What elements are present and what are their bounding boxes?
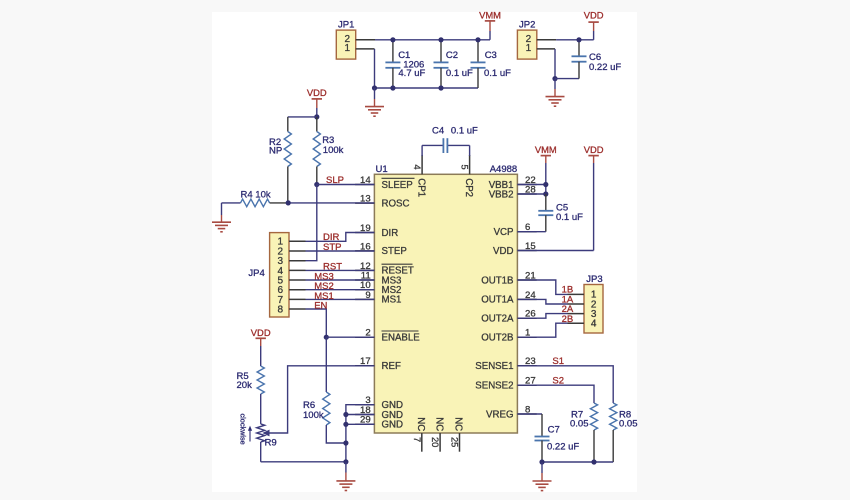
- node R6 gnd: [343, 440, 348, 445]
- svg-text:VMM: VMM: [479, 10, 501, 21]
- svg-text:VCP: VCP: [494, 227, 514, 238]
- net label 1A: [562, 294, 574, 305]
- svg-text:0.05: 0.05: [570, 418, 589, 429]
- resistor R2 NP: [269, 117, 291, 203]
- node JP1 gnd junction: [372, 85, 377, 90]
- svg-text:0.1 uF: 0.1 uF: [484, 68, 511, 79]
- node C3 top: [475, 37, 480, 42]
- net label MS1: [314, 291, 334, 302]
- wire MS2: [306, 289, 375, 291]
- svg-text:0.1 uF: 0.1 uF: [446, 68, 473, 79]
- capacitor C6: [572, 40, 622, 79]
- svg-text:4: 4: [412, 165, 422, 170]
- potentiometer R9 wiper arrow: [262, 430, 269, 437]
- svg-text:NC: NC: [415, 417, 426, 431]
- node C1 bottom: [390, 85, 395, 90]
- label clockwise: [239, 414, 253, 445]
- wire R9 bottom rail: [261, 461, 346, 463]
- capacitor C1: [385, 40, 425, 88]
- svg-text:VDD: VDD: [307, 87, 327, 98]
- svg-text:7: 7: [412, 437, 422, 442]
- svg-text:SLEEP: SLEEP: [382, 180, 413, 191]
- wire GND pin3 to bus: [346, 405, 375, 462]
- power VDD (R5): [251, 327, 271, 366]
- svg-text:JP1: JP1: [338, 20, 354, 31]
- node C2 top: [438, 37, 443, 42]
- net label S1: [552, 356, 564, 367]
- ground below JP2: [546, 79, 565, 107]
- wire MS1: [306, 298, 375, 300]
- net label EN: [314, 300, 327, 311]
- node ROSC junction: [286, 200, 291, 205]
- resistor R7 0.05: [570, 403, 598, 462]
- svg-text:MS1: MS1: [382, 295, 402, 306]
- wire JP2 bottom: [555, 78, 579, 80]
- svg-text:VDD: VDD: [251, 327, 271, 338]
- node C1 top: [390, 37, 395, 42]
- svg-text:100k: 100k: [323, 145, 344, 156]
- U1 top pins CP1 pin4 and CP2 pin5: [412, 155, 474, 197]
- resistor R3 100k: [313, 117, 343, 185]
- net label MS3: [314, 271, 334, 282]
- capacitor C4: [422, 126, 478, 157]
- wire SENSE1 S1: [517, 366, 613, 403]
- resistor R5 20k: [237, 366, 265, 424]
- wire JP2 pin2 to VDD: [556, 39, 594, 41]
- svg-text:NP: NP: [269, 145, 282, 156]
- wire VDD to R2: [288, 116, 317, 118]
- net label STP: [323, 242, 341, 253]
- svg-text:1: 1: [526, 43, 532, 54]
- power VDD (top right): [584, 10, 604, 40]
- svg-text:VDD: VDD: [493, 246, 513, 257]
- net label SLP: [326, 175, 344, 186]
- power VMM (top): [479, 10, 501, 40]
- power VMM (right): [535, 144, 557, 194]
- svg-text:S2: S2: [552, 375, 564, 386]
- svg-text:JP4: JP4: [248, 268, 264, 279]
- net label S2: [552, 375, 564, 386]
- svg-text:25: 25: [450, 437, 460, 447]
- wire REF: [267, 366, 375, 433]
- svg-text:SENSE1: SENSE1: [475, 361, 513, 372]
- capacitor C7: [535, 414, 580, 462]
- svg-text:VDD: VDD: [584, 144, 604, 155]
- net label DIR: [323, 232, 340, 243]
- wire SENSE2 S2: [517, 385, 594, 403]
- node C6 top: [576, 37, 581, 42]
- svg-text:C2: C2: [446, 50, 458, 61]
- node JP2 gnd junction: [552, 76, 557, 81]
- resistor R4 10k: [222, 189, 289, 206]
- U1 bottom NC pins 7 20 25: [412, 417, 464, 452]
- svg-text:DIR: DIR: [382, 228, 399, 239]
- node GND18: [343, 412, 348, 417]
- connector JP4: [248, 233, 305, 317]
- node SLP junction: [314, 182, 319, 187]
- node ENABLE junction: [324, 335, 329, 340]
- svg-text:0.1 uF: 0.1 uF: [451, 126, 478, 137]
- svg-text:REF: REF: [382, 361, 401, 372]
- svg-text:VMM: VMM: [535, 144, 557, 155]
- svg-text:0.22 uF: 0.22 uF: [547, 442, 579, 453]
- svg-text:C3: C3: [485, 50, 497, 61]
- net label 2B: [562, 314, 574, 325]
- wire DIR: [306, 233, 375, 242]
- wire STP: [306, 250, 375, 252]
- svg-text:VDD: VDD: [584, 10, 604, 21]
- wire OUT1B: [517, 280, 567, 294]
- svg-text:0.05: 0.05: [619, 418, 638, 429]
- node GND29: [343, 422, 348, 427]
- svg-text:SENSE2: SENSE2: [475, 381, 513, 392]
- wire sense bottom rail: [542, 461, 613, 463]
- svg-text:C7: C7: [548, 425, 560, 436]
- wire MS3: [306, 279, 375, 281]
- wire GND pin18: [346, 414, 375, 416]
- wire JP1 pin1 down: [374, 49, 376, 88]
- svg-text:U1: U1: [376, 164, 388, 175]
- wire JP2 pin1 down: [554, 49, 556, 79]
- svg-text:VREG: VREG: [486, 409, 513, 420]
- svg-text:clockwise: clockwise: [239, 414, 248, 445]
- schematic page: [212, 12, 637, 492]
- svg-text:20k: 20k: [237, 380, 253, 391]
- ground at R4: [212, 203, 231, 232]
- connector JP1: [336, 20, 375, 60]
- wire EN: [306, 309, 327, 337]
- node R7 gnd: [591, 459, 596, 464]
- net label MS2: [314, 281, 334, 292]
- svg-text:20: 20: [430, 437, 440, 447]
- svg-text:SLP: SLP: [326, 175, 344, 186]
- svg-text:NC: NC: [453, 417, 464, 431]
- net label RST: [323, 262, 342, 273]
- potentiometer R9: [257, 424, 277, 462]
- resistor R6 100k: [303, 337, 346, 443]
- U1 right pins with numbers and names: [475, 175, 536, 420]
- op-amp U1 A4988 body: [374, 164, 517, 433]
- net label 1B: [562, 285, 574, 296]
- svg-text:OUT2B: OUT2B: [481, 333, 513, 344]
- net label 2A: [562, 304, 574, 315]
- svg-text:0.22 uF: 0.22 uF: [589, 62, 621, 73]
- svg-text:4: 4: [591, 319, 597, 330]
- capacitor C5: [517, 194, 583, 232]
- svg-text:100k: 100k: [303, 410, 324, 421]
- svg-text:OUT1B: OUT1B: [481, 275, 513, 286]
- svg-text:A4988: A4988: [490, 164, 517, 175]
- U1 left pins with numbers and names: [355, 175, 420, 431]
- node VDD R2 R3 junction: [314, 114, 319, 119]
- svg-text:0.1 uF: 0.1 uF: [556, 212, 583, 223]
- svg-text:5: 5: [460, 165, 470, 170]
- power VDD (right): [584, 144, 604, 251]
- wire GND pin29: [346, 423, 375, 425]
- node VBB1: [543, 182, 548, 187]
- wire VBB2: [517, 193, 545, 195]
- wire VREG: [517, 413, 542, 415]
- svg-text:STEP: STEP: [382, 246, 407, 257]
- wire RST: [306, 269, 375, 271]
- ground at GND bus: [336, 462, 355, 491]
- svg-text:JP2: JP2: [519, 20, 535, 31]
- capacitor C3: [471, 40, 512, 88]
- svg-text:CP1: CP1: [415, 178, 426, 197]
- svg-text:ROSC: ROSC: [382, 198, 410, 209]
- wire VDD pin15: [517, 250, 593, 252]
- svg-text:C4: C4: [432, 126, 444, 137]
- svg-text:OUT2A: OUT2A: [481, 314, 514, 325]
- svg-text:1: 1: [345, 43, 351, 54]
- ground below JP1: [365, 88, 384, 116]
- svg-text:CP2: CP2: [463, 178, 474, 197]
- wire R3 to JP4 pin3: [289, 185, 317, 261]
- svg-text:GND: GND: [382, 420, 404, 431]
- wire ROSC: [288, 202, 374, 204]
- wire OUT2A: [517, 314, 567, 319]
- node rail gnd: [343, 459, 348, 464]
- svg-text:8: 8: [278, 304, 284, 315]
- ground at C7: [533, 462, 552, 491]
- svg-text:S1: S1: [552, 356, 564, 367]
- svg-text:NC: NC: [433, 417, 444, 431]
- resistor R8 0.05: [610, 403, 638, 462]
- svg-text:STP: STP: [323, 242, 341, 253]
- svg-text:VBB2: VBB2: [489, 189, 514, 200]
- wire ENABLE to U1: [326, 336, 374, 338]
- wire JP1 pin2 to VMM rail: [375, 39, 490, 41]
- node VBB2: [543, 191, 548, 196]
- svg-text:R4 10k: R4 10k: [241, 189, 271, 200]
- connector JP3: [568, 274, 604, 333]
- node C7 gnd: [539, 459, 544, 464]
- wire OUT1A: [517, 299, 567, 304]
- connector JP2: [517, 20, 556, 60]
- wire JP1 bottom rail: [375, 87, 479, 89]
- wire VBB1: [517, 184, 545, 186]
- wire SLP to U1 SLEEP: [317, 184, 375, 186]
- svg-text:OUT1A: OUT1A: [481, 295, 514, 306]
- svg-text:EN: EN: [314, 300, 327, 311]
- capacitor C2: [434, 40, 474, 88]
- node C2 bottom: [438, 85, 443, 90]
- wire OUT2B: [517, 323, 567, 337]
- svg-text:4.7 uF: 4.7 uF: [398, 68, 425, 79]
- svg-text:R9: R9: [265, 438, 277, 449]
- power VDD (left): [307, 87, 327, 117]
- svg-text:ENABLE: ENABLE: [382, 333, 421, 344]
- svg-text:JP3: JP3: [586, 274, 602, 285]
